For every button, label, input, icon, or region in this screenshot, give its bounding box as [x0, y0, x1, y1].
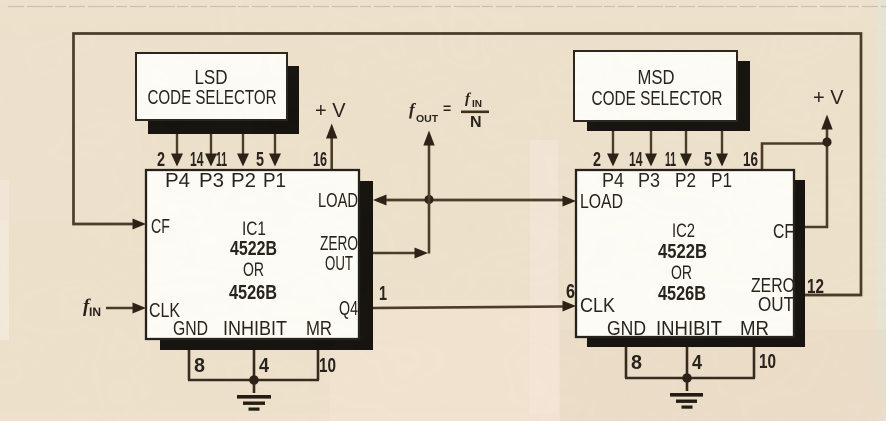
arrowhead into IC2 CLK: [563, 301, 577, 312]
wire IC2 ground bus (GND, INHIBIT, MR): [625, 347, 755, 391]
wire IC2 ZERO OUT pin 12: [800, 294, 861, 297]
wire LSD arrows into IC1 P4..P1: [177, 134, 275, 155]
IC2 divider box: [576, 170, 805, 347]
wire IC1 ground bus (GND, INHIBIT, MR): [188, 350, 319, 393]
node junction dot on LOAD bus: [424, 195, 433, 204]
node f_OUT formula: [409, 91, 489, 131]
MSD code selector box: [574, 51, 750, 131]
wire f_IN to CLK: [106, 307, 133, 310]
IC1 divider box: [146, 170, 373, 350]
wire f_OUT stem: [428, 143, 431, 199]
ground symbol IC2: [670, 393, 703, 409]
wire feedback net: IC2 ZERO OUT to IC1 CF: [74, 34, 862, 296]
power +V for IC2 with CF tie: [762, 87, 844, 227]
node junction dot ground IC2: [682, 373, 692, 383]
arrowhead ZERO OUT right: [415, 248, 429, 259]
LSD code selector box: [136, 53, 299, 134]
arrowhead into IC1 LOAD: [373, 195, 387, 206]
wire LOAD bus between IC1 and IC2: [378, 199, 571, 202]
node junction dot ground IC1: [249, 375, 259, 385]
ground symbol IC1: [237, 395, 271, 411]
power +V for IC1: [315, 100, 346, 170]
arrowhead into IC1 CF: [133, 219, 147, 230]
arrowhead into IC2 LOAD: [563, 196, 577, 207]
node f_IN label: [83, 296, 101, 319]
wire MSD arrows into IC2 P4..P1: [613, 131, 722, 155]
wire IC1 Q4 to IC2 CLK: [373, 307, 563, 309]
arrowhead f_OUT up: [423, 131, 434, 146]
arrowhead into IC1 CLK: [133, 303, 147, 314]
wire IC1 ZERO OUT to LOAD bus: [373, 199, 429, 254]
